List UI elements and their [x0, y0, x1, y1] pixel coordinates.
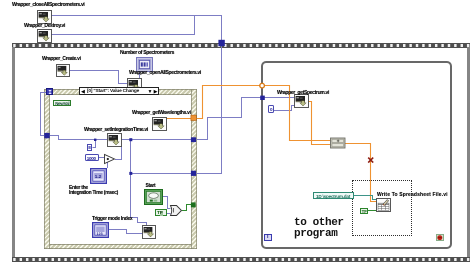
- outer loop right border: [467, 47, 471, 257]
- wire Start control to gate: [162, 197, 171, 209]
- svg-text:123: 123: [96, 232, 102, 236]
- label Wrapper_Create.vi: [42, 57, 81, 62]
- tunnel event right border y139: [191, 137, 196, 142]
- junction dot at setIntegrationTime output: [129, 138, 132, 141]
- wire right-loop tunnel to getSpectrum: [264, 97, 295, 99]
- wire setIntegrationTime net routed to right loop tunnel: [197, 98, 262, 140]
- subVI Wrapper_setIntegrationTime: [107, 133, 122, 147]
- control Enter the Integration Time: [90, 168, 107, 184]
- compound gate (Or): [171, 206, 182, 216]
- wire getSpectrum output to build node: [308, 102, 331, 145]
- text to other program: [294, 218, 344, 241]
- subVI Wrapper_Create: [56, 64, 70, 77]
- wire branch down to trigger subVI: [131, 140, 147, 227]
- wire tunnel y173 to long vertical from top tunnel: [197, 44, 222, 174]
- constant numeric (right loop): [268, 105, 274, 113]
- control Start (boolean): [144, 189, 163, 205]
- label Wrapper_Destroy.vi: [24, 24, 65, 29]
- wire timeout terminal loop-back into event structure: [41, 93, 47, 136]
- event structure right border: [191, 89, 197, 249]
- subVI trigger mode: [142, 225, 156, 239]
- indicator Number of Spectrometers: [136, 57, 153, 72]
- wire Destroy refnum joining: [51, 16, 195, 35]
- control Trigger mode Index: [92, 222, 109, 238]
- wire branch to lower right tunnel: [131, 173, 192, 175]
- label Wrapper_getSpectrum.vi: [277, 91, 329, 96]
- timeout terminal of event structure: [46, 88, 53, 95]
- while loop frame (to other program): [261, 61, 452, 249]
- svg-text:1.2: 1.2: [95, 173, 102, 178]
- dashed selection box around Write To Spreadsheet: [352, 180, 412, 236]
- label Wrapper_setIntegrationTime.vi: [84, 128, 148, 133]
- label Wrapper_getWavelengths.vi: [132, 111, 191, 116]
- wire getWavelengths output to orange tunnel: [166, 118, 192, 120]
- label Enter the Integration Time: [69, 186, 118, 196]
- event data node NewVal: [53, 100, 71, 107]
- label Start: [146, 184, 156, 189]
- wire Create to openAll: [69, 71, 127, 84]
- subVI Wrapper_getSpectrum: [294, 94, 309, 108]
- label Wrapper_closeAllSpectrometers.vi: [12, 3, 84, 8]
- wire orange tunnel to right loop: [197, 86, 260, 119]
- event structure bottom border: [44, 244, 197, 250]
- wire 1000 to multiply: [99, 157, 105, 159]
- wire TF2 to Write To Spreadsheet: [368, 210, 377, 212]
- iteration terminal i: [264, 234, 271, 241]
- tunnel on outer loop top border: [218, 40, 224, 46]
- wire small constant to getSpectrum lower pin: [274, 106, 295, 111]
- wire path constant to Write To Spreadsheet: [354, 196, 377, 200]
- wire setIntegrationTime output to right tunnel: [121, 139, 192, 141]
- outer loop bottom border: [12, 257, 471, 262]
- event structure selector [0] Start: Value Change: [79, 87, 159, 95]
- wire TF constant to gate: [167, 213, 171, 215]
- constant TF (write append): [360, 208, 369, 214]
- wire wavelengths inside right loop to build node: [265, 86, 331, 141]
- wire closeAll refnum to top tunnel: [51, 16, 222, 41]
- wire openAll to Number-of-Spectrometers indicator: [139, 71, 141, 78]
- orange ring tunnel on right loop border: [260, 83, 265, 88]
- constant 1000: [85, 154, 99, 161]
- event structure left border: [44, 89, 50, 249]
- label Write To Spreadsheet File.vi: [377, 193, 448, 198]
- subVI Wrapper_getWavelengths: [152, 117, 167, 131]
- wire gate output to green tunnel: [182, 205, 191, 211]
- red breakpoint X on wire: [368, 158, 373, 163]
- wire build node to Write To Spreadsheet: [345, 144, 377, 202]
- orange tunnel on event right border: [191, 115, 196, 120]
- junction dot constant-8: [94, 139, 96, 141]
- subVI Wrapper_openAllSpectrometers: [127, 78, 142, 92]
- multiply function: [105, 155, 115, 164]
- outer loop left border: [12, 47, 15, 257]
- wire control to multiply: [107, 163, 109, 169]
- event structure top border: [44, 89, 197, 94]
- tunnel on right loop border y97: [260, 96, 265, 100]
- wire trigger control to trigger subVI: [108, 230, 143, 234]
- wire event tunnel to setIntegrationTime input: [49, 136, 107, 140]
- junction dot at y173: [129, 172, 132, 175]
- subVI Wrapper_closeAllSpectrometers: [37, 10, 52, 24]
- subVI Wrapper_Destroy: [37, 29, 52, 43]
- constant TF (Start gate): [155, 209, 168, 216]
- tunnel on event structure left border: [44, 133, 49, 138]
- outer loop top border: [12, 43, 471, 48]
- label Number of Spectrometers: [120, 51, 174, 56]
- path constant 1D spectrum.dat: [313, 192, 354, 199]
- wire constant 8 branch: [93, 140, 96, 148]
- loop condition terminal: [436, 234, 444, 241]
- label Wrapper_openAllSpectrometers.vi: [129, 71, 201, 76]
- VI Write To Spreadsheet File: [376, 198, 391, 212]
- constant 8: [87, 144, 92, 151]
- green tunnel on event right border: [191, 202, 196, 207]
- label Trigger mode Index: [92, 217, 132, 222]
- wire multiply output up to setIntegrationTime: [115, 147, 122, 160]
- tunnel event right border y173: [191, 171, 196, 176]
- build array node: [331, 138, 346, 148]
